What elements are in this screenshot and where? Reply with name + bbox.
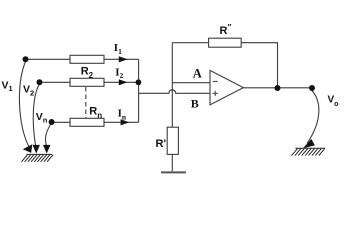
node V1 <box>23 56 29 62</box>
node V2 <box>37 79 43 85</box>
svg-text:B: B <box>191 97 199 111</box>
wire feedback left vertical (top node to R') <box>171 43 173 128</box>
resistor Rn <box>70 118 104 126</box>
ground right (hatched earth) <box>292 148 326 155</box>
arrow Vo to ground (points down-left) <box>303 139 315 148</box>
curve V2 measurement arc <box>33 85 39 145</box>
op-amp minus sign <box>213 80 218 82</box>
summing bus vertical wire <box>138 59 140 122</box>
resistor R1 <box>70 55 104 63</box>
ground bar under R' <box>161 171 186 173</box>
junction node on bus <box>136 79 142 85</box>
node Vn <box>49 119 55 125</box>
svg-text:R': R' <box>156 138 167 150</box>
arrow I1 <box>119 56 128 62</box>
arrow Vn to ground (points down) <box>43 145 50 154</box>
curve Vn measurement arc <box>45 125 50 146</box>
node Vo <box>309 85 315 91</box>
resistor Rprime <box>167 127 178 154</box>
arrow V1 to ground (points left-down) <box>23 144 33 153</box>
wire row2 left (V2 node to R2) <box>40 81 71 83</box>
curve V1 measurement arc <box>19 62 29 148</box>
wire row3 right (Rn to bus) <box>104 121 139 123</box>
op-amp plus sign <box>213 91 218 96</box>
wire bus to op-amp + input with hop over R' line <box>139 90 210 94</box>
dashed ellipsis line between R2 and Rn <box>85 87 87 118</box>
wire row3 left (Vn node to Rn) <box>52 121 70 123</box>
arrow In <box>121 119 130 125</box>
junction node output/feedback <box>275 85 281 91</box>
wire row1 right (R1 to bus) <box>104 58 139 60</box>
output wire <box>243 87 312 89</box>
op-amp U1 <box>210 70 243 105</box>
resistor R2dprime <box>209 38 242 47</box>
arrow I2 <box>119 79 128 85</box>
arrow V2 to ground (points down) <box>33 145 40 154</box>
wire row1 left (V1 node to R1) <box>26 58 71 60</box>
feedback top wire left <box>172 42 208 44</box>
curve Vo measurement arc <box>307 91 319 144</box>
resistor R2 <box>70 78 104 86</box>
wire inverting input (node to op-amp) <box>172 82 210 84</box>
svg-text:A: A <box>193 67 202 81</box>
wire row2 right (R2 to bus) <box>104 81 139 83</box>
wire R' to ground <box>171 154 173 171</box>
ground left (hatched earth) <box>22 154 54 161</box>
feedback top wire right and down to output <box>241 43 277 88</box>
